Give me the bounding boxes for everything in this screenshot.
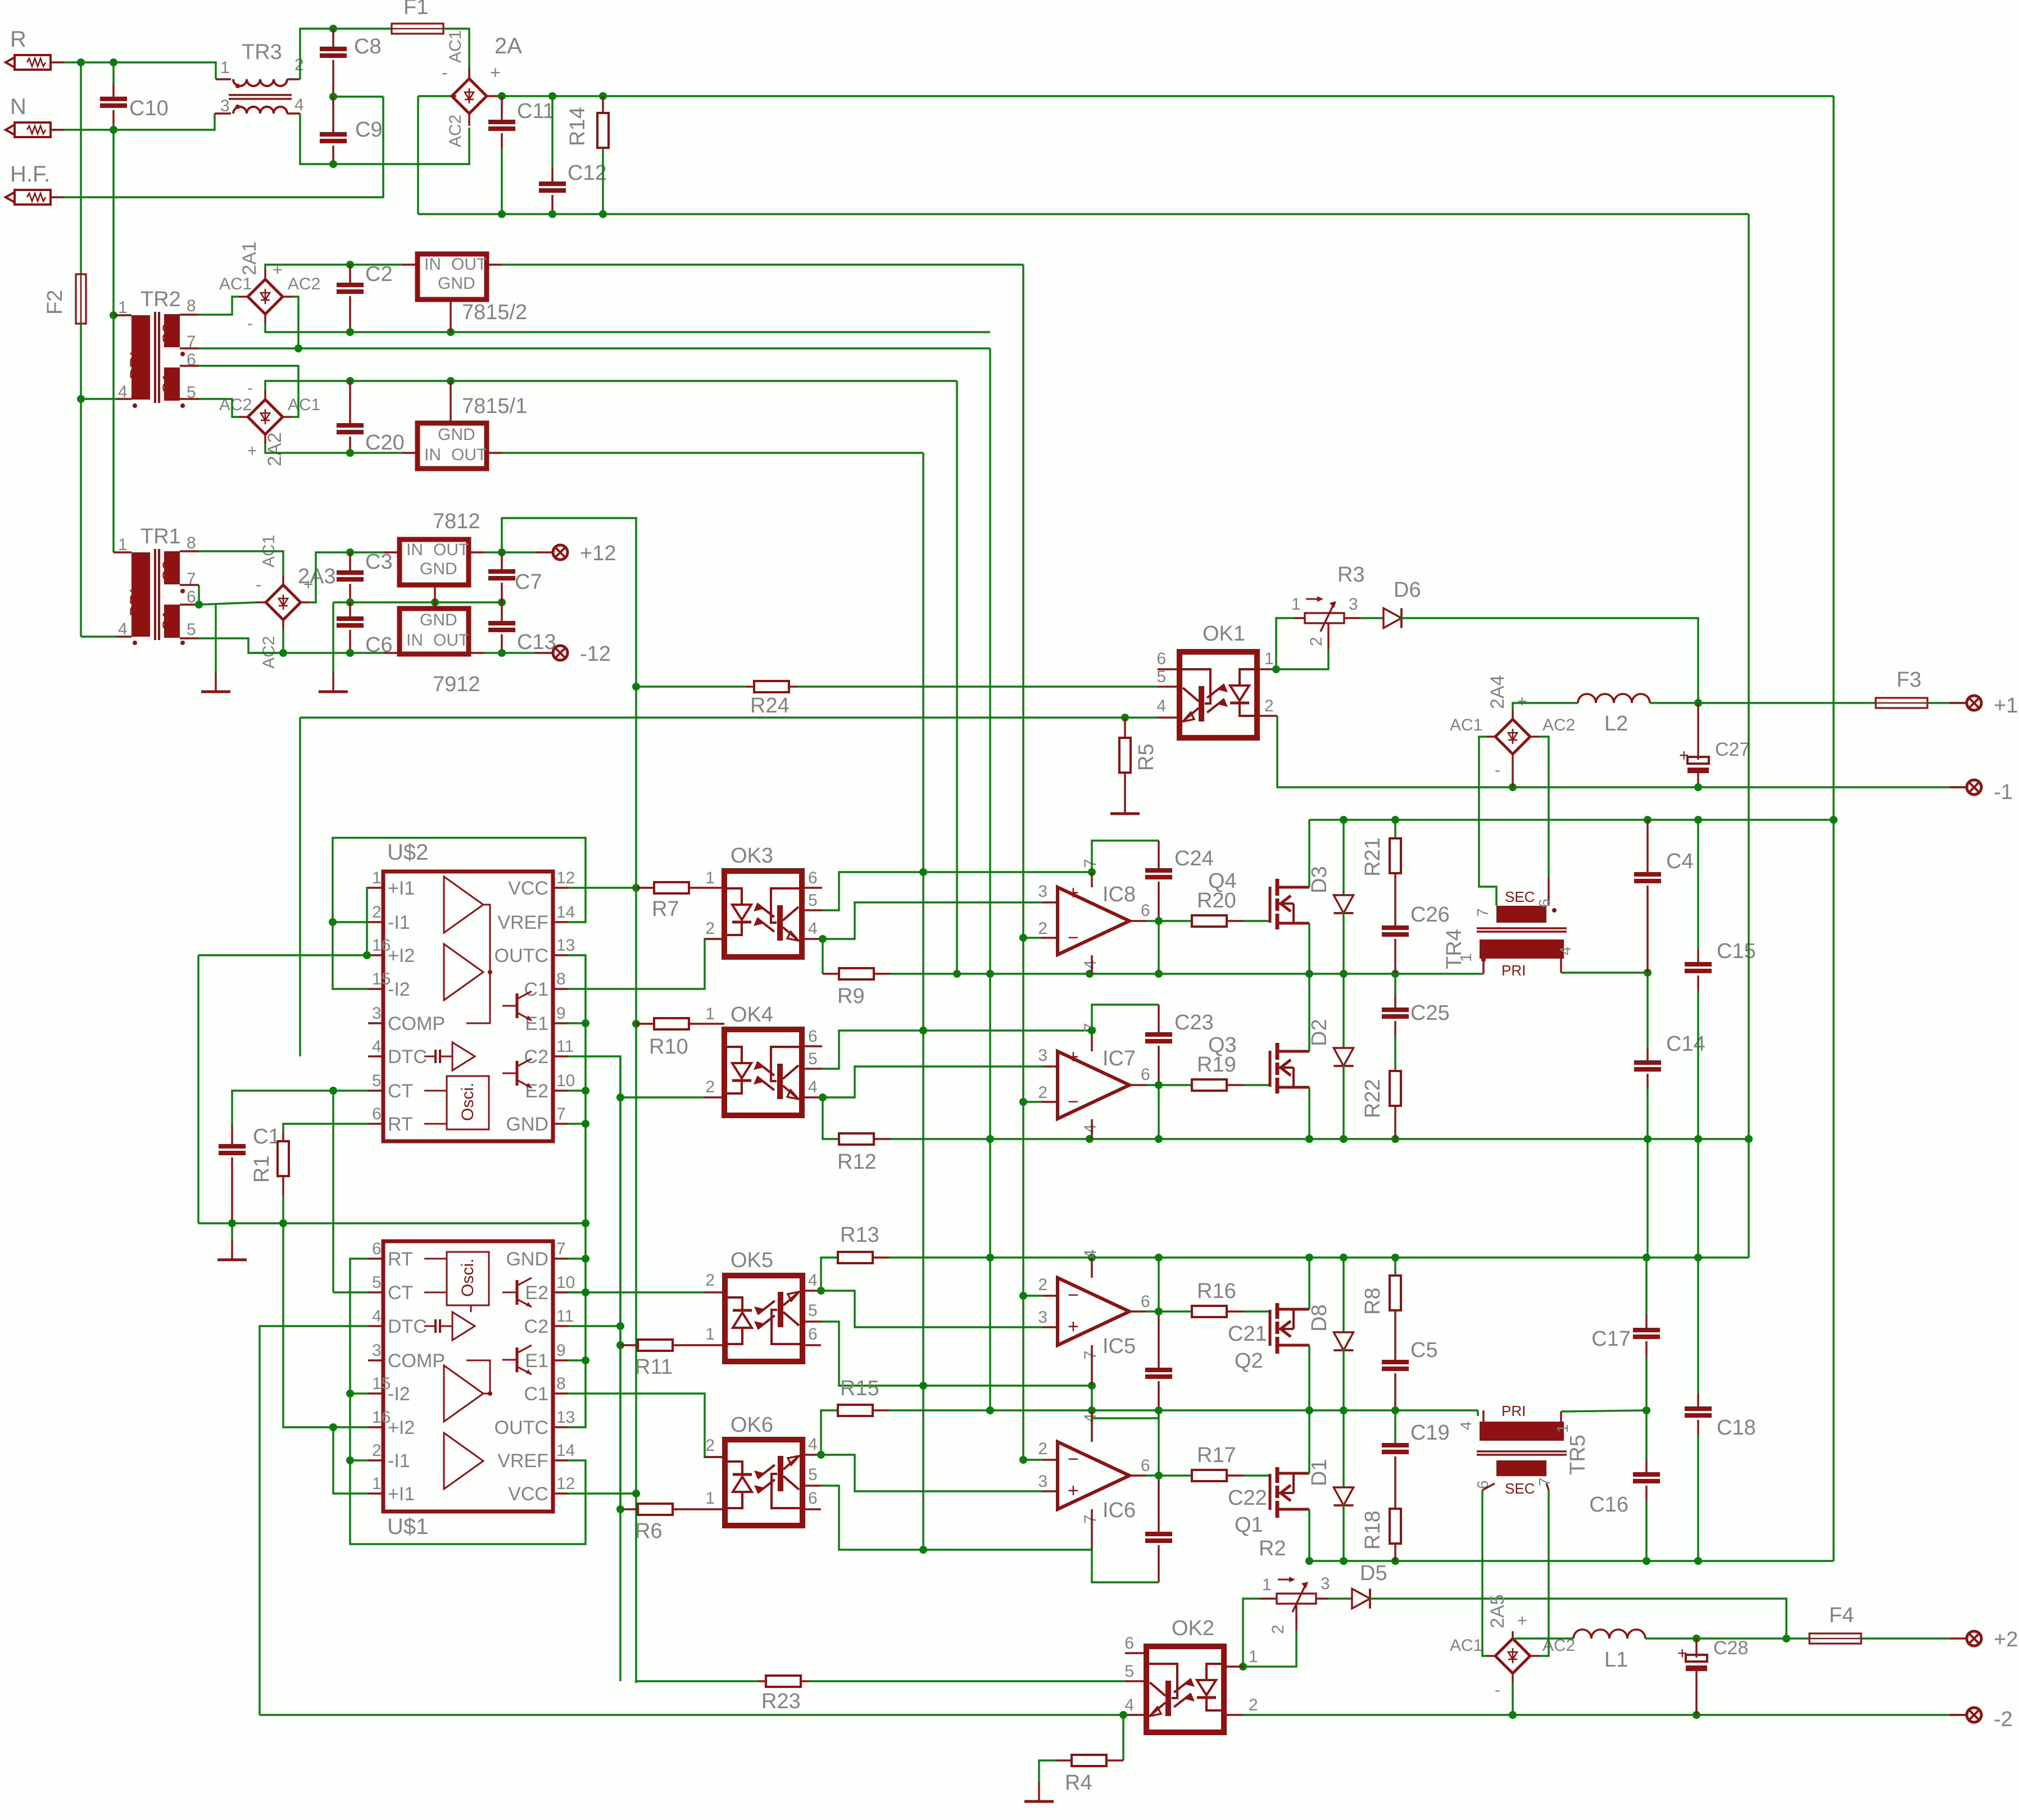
svg-text:C28: C28 [1713,1637,1748,1659]
svg-text:1: 1 [1554,1424,1571,1433]
wire 2A3 plus up to 7812 IN [310,552,384,602]
optocoupler OK4 [724,1029,802,1115]
U$1 internal osc [447,1252,489,1305]
svg-text:7: 7 [1081,859,1100,868]
svg-text:6: 6 [1124,1634,1134,1653]
svg-text:R22: R22 [1361,1079,1385,1118]
svg-text:H.F.: H.F. [10,162,50,187]
svg-text:−: − [1068,1449,1079,1470]
svg-text:IC7: IC7 [1102,1047,1136,1070]
svg-text:U$2: U$2 [387,840,428,865]
svg-text:C1: C1 [253,1125,280,1149]
svg-text:2A1: 2A1 [239,242,260,276]
svg-text:VCC: VCC [508,878,548,899]
y2466 line to IC5 [923,1385,1092,1386]
Q4 drain to rail y1460 [1308,820,1310,887]
svg-text:C13: C13 [517,630,556,654]
U$1 DTC to OK2 line [260,1326,368,1715]
IC5 pin4 to rail2238 [1091,1258,1092,1278]
svg-text:-I2: -I2 [388,1383,410,1405]
svg-text:5: 5 [1156,668,1166,686]
wire TR2 pin5 to 2A2 AC2 [199,399,239,417]
svg-text:7815/1: 7815/1 [462,394,527,418]
svg-text:R12: R12 [837,1150,877,1174]
transformer TR2 [131,315,150,400]
svg-text:IN: IN [406,631,423,650]
svg-text:5: 5 [187,620,196,639]
capacitor C11 [501,96,502,122]
wire 2A2 minus rail y678 [265,381,957,390]
svg-text:4: 4 [808,1271,818,1290]
svg-text:IN: IN [406,541,423,559]
svg-text:D8: D8 [1308,1304,1331,1332]
svg-text:5: 5 [372,1072,382,1090]
gnd branch [215,605,216,673]
inductor L2 [1578,694,1650,703]
OK5 pin5 to IC5 V+ line y2466 [821,1322,923,1386]
wire 2A4 minus to -1 line [1512,764,1513,787]
diode D8 [1342,1258,1344,1332]
svg-text:-12: -12 [580,642,611,666]
wire TR2 pin6 to 2A2 AC1 [199,366,298,417]
svg-text:2: 2 [705,1436,715,1455]
svg-text:C14: C14 [1666,1032,1705,1056]
svg-text:AC1: AC1 [219,275,252,293]
svg-text:4: 4 [1457,1421,1474,1430]
+2 bubble [1967,1631,1981,1646]
svg-text:RT: RT [388,1114,413,1135]
node C8/C9/HF [329,93,337,101]
svg-text:Q1: Q1 [1235,1513,1263,1537]
svg-text:2: 2 [705,1078,715,1096]
svg-text:+I1: +I1 [388,878,415,899]
svg-text:6: 6 [808,1489,818,1508]
svg-text:AC1: AC1 [446,30,465,63]
svg-text:F1: F1 [403,0,428,19]
gnd rail y1072 [333,601,502,603]
resistor R1 [282,1132,284,1141]
OK4 pin5 to y1834 line [822,1031,923,1069]
svg-text:7: 7 [556,1105,566,1123]
OK6 pin5 to IC6 V+ line y2758 [821,1486,1092,1550]
svg-text:-: - [1495,761,1500,779]
svg-text:11: 11 [556,1307,574,1326]
svg-text:4: 4 [1081,1413,1100,1423]
svg-text:6: 6 [372,1105,382,1123]
wire 2A4 AC1 down to TR4 SEC pin7 [1479,737,1496,906]
op-amp IC7 [1058,1051,1129,1119]
mosfet Q4 [1269,887,1272,923]
IC5 pin7 to V+ line [1091,1345,1092,1386]
transformer TR5 [1480,1422,1564,1441]
riser x3112 from return bus [1748,214,1749,1139]
wire D6 to +1 node [1400,618,1698,703]
svg-text:6: 6 [808,869,818,887]
capacitor C13 [501,602,502,623]
svg-text:TR4: TR4 [1442,929,1466,969]
trimmer R2 [1277,1594,1316,1604]
svg-text:OUT: OUT [433,541,469,559]
TR5 PRI pin1 out to C17/C16 node [1560,1411,1562,1422]
IC8 pin7 to V+ line [1091,872,1092,887]
capacitor C26 [1382,925,1409,930]
gnd under R4 [1039,1760,1056,1782]
svg-text:+: + [303,575,314,594]
wire 7815/2 OUT to x1821 [502,264,1023,265]
svg-text:C12: C12 [568,161,607,185]
svg-text:F4: F4 [1829,1604,1854,1627]
input jack H.F. [6,192,15,202]
resistor R10 [632,1020,640,1028]
svg-text:+: + [1068,1316,1079,1337]
svg-text:1: 1 [1262,1576,1272,1594]
vertical x1703 down [956,381,958,974]
svg-text:4: 4 [118,383,128,401]
wire F2 to TR2/TR1 pin4 [80,324,81,399]
diode D3 [1342,820,1344,895]
svg-text:C9: C9 [355,118,383,142]
U$2 internal amps [444,877,483,933]
svg-text:-I1: -I1 [388,912,410,933]
capacitor C17 [1645,1258,1647,1315]
C24 bottom to rail [1158,921,1159,974]
IC6 output [1129,1474,1146,1476]
wire 2A1 minus to gnd bus y591 [265,324,990,332]
resistor R13 [838,1252,873,1263]
svg-text:S1: S1 [160,610,178,630]
wire 7812 OUT to +12 [469,551,484,553]
svg-text:-: - [247,379,253,397]
rail y2238 [889,1256,1749,1258]
svg-text:GND: GND [506,1114,548,1135]
svg-text:-: - [1495,1681,1500,1699]
bridge rectifier 2A3 [266,585,301,620]
PWM controller U$2 [383,872,553,1141]
-2 bubble [1950,1714,1967,1715]
svg-text:C19: C19 [1410,1421,1450,1445]
svg-text:+: + [247,442,257,460]
svg-text:2: 2 [1038,1276,1047,1294]
svg-text:D1: D1 [1308,1459,1331,1486]
svg-text:5: 5 [808,1465,818,1484]
svg-text:3: 3 [1038,1308,1047,1327]
resistor R14 [602,96,604,113]
svg-text:1: 1 [220,58,230,77]
capacitor C5 [1382,1360,1409,1364]
OK5 pin4 to IC5 +in [821,1291,1042,1327]
+12 supply loop to VCC rail [502,518,636,687]
OK3 pin4 node [819,935,827,943]
R3 wiper to OK1 pin1 node [1327,623,1329,649]
wire TR1 pin7+6 junction [198,585,199,605]
svg-text:5: 5 [808,1050,818,1068]
OK4 pin4 down to R12 rail [823,1097,839,1139]
U$1 OUTC tie to GND [568,1259,586,1427]
svg-text:C2: C2 [524,1046,548,1068]
svg-text:10: 10 [556,1072,575,1090]
op-amp IC8 [1058,887,1129,955]
svg-text:13: 13 [556,936,575,955]
svg-text:COMP: COMP [388,1013,445,1034]
transformer TR4 [1496,906,1546,923]
svg-text:Osci.: Osci. [459,1083,477,1121]
svg-text:R6: R6 [635,1519,663,1543]
svg-text:+: + [1517,692,1527,711]
svg-text:−: − [1068,927,1079,948]
svg-text:AC2: AC2 [288,275,320,293]
svg-text:-: - [256,575,261,594]
mosfet Q1 [1269,1474,1272,1510]
optocoupler OK5 [725,1276,802,1361]
svg-text:+I1: +I1 [388,1483,415,1505]
2A5 AC2 to TR5 SEC pin7 [1539,1490,1549,1656]
wire TR3 pin4 to bridge AC2 [300,114,469,164]
svg-text:6: 6 [372,1240,382,1258]
wire N to TR3 pin3 [63,114,215,130]
svg-text:R24: R24 [750,694,790,718]
svg-text:IC5: IC5 [1102,1335,1136,1358]
junction R/C10 column [77,58,85,66]
svg-text:R9: R9 [837,984,865,1008]
OK2 pin2 to -2 line [1243,1714,1966,1715]
svg-text:+: + [1068,1046,1079,1068]
svg-text:15: 15 [372,1374,391,1393]
diode D5 [1328,1597,1352,1599]
OUTC tied to GND [568,955,586,1223]
OK4 pin4 node [819,1093,827,1101]
resistor R18 [1394,1410,1396,1445]
svg-text:2: 2 [705,1271,715,1290]
bridge rectifier 2A [452,79,487,114]
svg-text:GND: GND [438,425,475,444]
svg-text:IN: IN [424,446,441,464]
svg-text:R10: R10 [649,1035,688,1059]
wire 7815/1 OUT to x1643 [502,452,923,453]
resistor R8 [1394,1258,1396,1276]
svg-text:U$1: U$1 [387,1514,428,1539]
svg-text:6: 6 [808,1325,818,1344]
svg-text:7812: 7812 [433,510,480,533]
svg-text:OK6: OK6 [731,1413,773,1437]
gnd symbol under C1 [231,1223,233,1241]
y1834 line to IC7 V+ [923,1029,1092,1031]
IC5 pin2 from x1821 [1023,1295,1042,1296]
svg-text:R13: R13 [840,1223,879,1247]
svg-text:2: 2 [1038,919,1047,938]
svg-text:2: 2 [372,1441,382,1460]
rail to TR4 pin1 [1478,973,1483,974]
+I feed line from left loop [198,954,368,956]
svg-text:+I2: +I2 [388,1417,415,1438]
svg-text:C24: C24 [1174,847,1214,870]
svg-text:1: 1 [705,1325,715,1344]
svg-text:R21: R21 [1361,837,1385,877]
svg-text:2: 2 [705,919,715,938]
svg-text:N: N [10,94,26,119]
TR4 pin4 to C4/C14 node [1560,959,1562,973]
svg-text:AC1: AC1 [288,396,320,414]
OK6 pin4 to IC6 +in [821,1455,1042,1491]
svg-text:Q4: Q4 [1208,869,1237,893]
svg-text:2A4: 2A4 [1487,675,1508,710]
R2 wiper down to OK2 pin1 node [1295,1604,1297,1631]
Q2 source up to rail2238 [1308,1258,1310,1309]
svg-text:C1: C1 [524,1383,548,1405]
svg-text:+: + [1068,882,1079,904]
wire center tap to 2A3 minus [199,602,257,605]
svg-text:C20: C20 [365,431,405,455]
U$2 internal osc [447,1076,489,1129]
svg-text:C25: C25 [1410,1001,1450,1025]
transformer TR3 common-mode choke [233,79,287,86]
-12 bubble [553,646,568,660]
svg-text:OK3: OK3 [731,844,773,868]
svg-text:C2: C2 [365,262,393,286]
+ rail y171 to the right [500,95,1834,97]
svg-text:1: 1 [705,1005,715,1023]
U$1 internal transistors [516,1280,519,1305]
svg-text:C11: C11 [517,99,555,123]
svg-text:TR3: TR3 [242,40,282,64]
svg-text:AC1: AC1 [1450,1636,1482,1655]
svg-text:PRI: PRI [127,588,146,616]
svg-text:OUT: OUT [451,446,487,464]
Q3 source down to rail2027 [1308,1087,1310,1139]
vertical x593 to 7912 IN line [332,602,334,653]
capacitor C24 [1092,841,1159,872]
svg-text:PRI: PRI [1501,962,1526,979]
svg-text:R1: R1 [250,1155,274,1183]
R13 from OK5 pin4 [817,1287,825,1295]
svg-text:7912: 7912 [433,673,480,696]
wire R to TR3 pin1 [63,62,216,79]
-1 bubble [1967,780,1981,795]
vertical x504 down to U$1 +I2 [283,1223,333,1427]
svg-text:7815/2: 7815/2 [462,301,527,324]
bridge rectifier 2A2 [248,400,283,434]
svg-text:-: - [442,62,448,83]
svg-text:Q3: Q3 [1208,1033,1237,1057]
capacitor C22 [1092,1550,1159,1582]
svg-text:-1: -1 [1994,780,2013,804]
svg-text:OUTC: OUTC [494,945,548,966]
Q2 drain down to rail2510 [1308,1345,1310,1410]
IC7 pin2 from x1821 [1023,1101,1041,1102]
svg-text:R3: R3 [1337,563,1365,587]
optocoupler OK3 [724,871,802,957]
VREF loop to -I1/-I2 [333,838,586,989]
capacitor C2 [349,265,351,285]
capacitor C12 [551,96,553,169]
svg-text:+: + [1677,1644,1687,1663]
svg-text:1: 1 [1291,595,1301,614]
C21 top to rail2238 [1158,1258,1159,1311]
capacitor C3 [349,552,351,573]
svg-text:+I2: +I2 [388,945,415,966]
transformer TR1 [131,552,150,637]
svg-text:7: 7 [1536,1477,1553,1486]
svg-text:C8: C8 [354,35,382,58]
svg-text:GND: GND [438,274,475,293]
svg-text:3: 3 [1038,1472,1047,1491]
svg-text:F2: F2 [43,290,67,315]
svg-text:4: 4 [372,1037,382,1056]
svg-text:C5: C5 [1410,1338,1438,1362]
svg-text:R5: R5 [1135,743,1158,771]
svg-text:-2: -2 [1994,1708,2013,1731]
U$1 +I2/+I1 tie [333,1426,368,1428]
resistor R12 [839,1133,874,1145]
svg-text:E1: E1 [525,1350,548,1372]
svg-text:R8: R8 [1361,1287,1385,1315]
C22 top to rail2510 [1158,1410,1159,1476]
voltage regulator 7815/2 [418,254,487,299]
C1 output to OK3 pin2 line [568,939,724,989]
trimmer R3 [1305,613,1344,623]
OK1 pin2 to -1 line [1277,716,1966,787]
svg-text:7: 7 [1081,1350,1100,1360]
svg-text:AC2: AC2 [1542,716,1575,734]
wire H.F. to C8/C9 node [63,97,383,197]
rail y171 drop at right [1832,96,1834,820]
svg-text:3: 3 [1038,1046,1047,1065]
R23 to OK2 pin5 [809,1680,1125,1682]
svg-text:6: 6 [1156,650,1166,668]
IC6 pin7 to V+ line [1091,1509,1092,1550]
RT line to R1 [283,1124,368,1132]
vertical DTC U$2 x534 [299,718,301,1056]
capacitor C25 [1394,974,1396,995]
svg-text:C3: C3 [365,550,393,574]
svg-text:D2: D2 [1308,1019,1331,1046]
capacitor C28 polarized [1695,1639,1697,1658]
svg-text:C10: C10 [129,97,169,120]
svg-text:R23: R23 [761,1690,801,1713]
gnd below R5 [1110,813,1140,815]
svg-text:7: 7 [1081,1514,1100,1524]
capacitor C15 [1697,820,1699,949]
vertical x1821 down [1022,265,1024,1460]
OK3 pin4 down to R9 rail [822,939,823,974]
resistor R5 [1124,718,1126,738]
svg-text:4: 4 [294,96,304,114]
svg-text:5: 5 [808,1301,818,1320]
svg-text:GND: GND [420,611,457,629]
svg-text:2: 2 [1249,1696,1258,1714]
svg-text:+12: +12 [580,542,616,565]
svg-text:9: 9 [556,1004,566,1023]
wire L1 to +2 node [1645,1637,1809,1639]
C2 output down to x1104 [568,1056,620,1681]
svg-text:C2: C2 [524,1316,548,1337]
U$1 C1 output to OK6 pin2 [568,1394,724,1457]
rail y2027 [890,1138,1749,1140]
svg-text:3: 3 [1349,595,1358,614]
svg-text:5: 5 [808,891,818,910]
capacitor C16 [1645,1410,1647,1459]
svg-text:11: 11 [556,1037,574,1056]
svg-text:16: 16 [372,1408,391,1427]
svg-text:TR5: TR5 [1566,1435,1590,1475]
svg-text:C26: C26 [1410,903,1450,927]
svg-text:IC6: IC6 [1102,1499,1136,1522]
svg-text:SEC: SEC [1505,888,1535,905]
svg-text:CT: CT [388,1282,413,1304]
svg-text:C17: C17 [1591,1327,1631,1351]
bridge rectifier 2A4 [1495,719,1530,754]
svg-text:PRI: PRI [1501,1403,1526,1419]
svg-text:−: − [1068,1091,1079,1113]
